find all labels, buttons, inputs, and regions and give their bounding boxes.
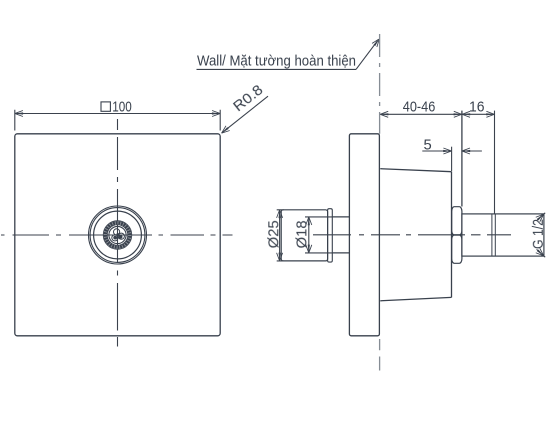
- wall label underline: [197, 68, 357, 70]
- dim 5: [422, 147, 482, 172]
- lock nut: [452, 207, 462, 264]
- dim 40-46: [380, 111, 462, 207]
- dimension line: [15, 113, 220, 115]
- svg-text:16: 16: [469, 99, 485, 116]
- front view: vertical centerline: [117, 119, 119, 347]
- wall label leader: [356, 41, 378, 70]
- cap flange band: [328, 209, 333, 262]
- escutcheon outer ring circle: [89, 206, 147, 264]
- front view: horizontal centerline: [1, 234, 233, 236]
- dimension square100: extension lines: [15, 110, 220, 131]
- svg-text:40-46: 40-46: [403, 99, 436, 116]
- knurled ring: [105, 223, 129, 247]
- svg-text:100: 100: [112, 98, 132, 115]
- wall label text: [197, 53, 356, 70]
- wall dash-dot line: [379, 34, 381, 371]
- tapered body right edge: [451, 172, 453, 298]
- outlet pipe: [462, 214, 544, 256]
- cap face circle: [94, 211, 142, 259]
- front view square plate: [15, 134, 220, 336]
- neck: [332, 217, 349, 253]
- R0.8 text: [230, 81, 266, 115]
- dim square100 text: [101, 98, 132, 115]
- tri-lobe detail: [112, 229, 125, 241]
- dim 16: [462, 111, 495, 214]
- svg-text:5: 5: [423, 136, 431, 153]
- side view plate: [349, 134, 379, 336]
- cap body: [281, 210, 327, 261]
- svg-text:G 1/2: G 1/2: [530, 219, 547, 249]
- svg-text:Ø25: Ø25: [265, 220, 282, 248]
- side view: horizontal centerline: [313, 234, 511, 236]
- knurl outlines: [103, 221, 132, 250]
- dim square100 arrows: [15, 111, 23, 117]
- tapered body: [380, 169, 451, 301]
- dim dia18: [305, 217, 333, 253]
- R0.8 leader: [222, 96, 269, 133]
- dim dia25: [277, 210, 284, 261]
- svg-text:Ø18: Ø18: [293, 220, 310, 248]
- escutcheon outer ring inner circle: [90, 208, 145, 263]
- svg-text:Wall/ Mặt tường hoàn thiện: Wall/ Mặt tường hoàn thiện: [197, 53, 356, 70]
- inner ring: [109, 226, 126, 243]
- dim G 1/2: [537, 213, 546, 257]
- pipe groove: [492, 214, 495, 256]
